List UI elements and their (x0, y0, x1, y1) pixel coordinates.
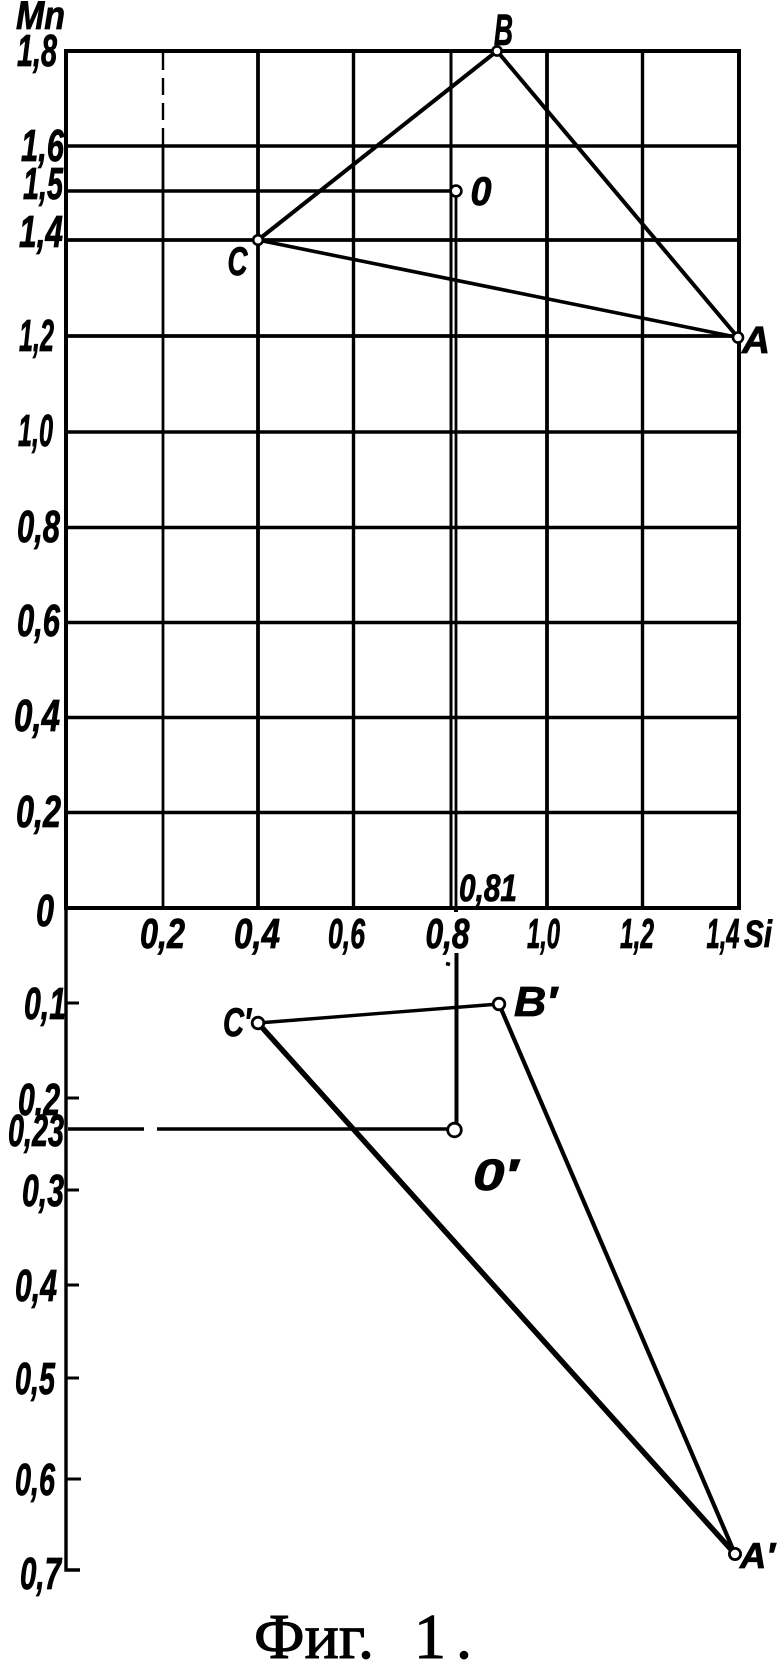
svg-text:C′: C′ (223, 1001, 253, 1045)
svg-text:B′: B′ (514, 978, 559, 1025)
svg-text:1.: 1. (414, 1601, 472, 1662)
svg-text:1,4: 1,4 (19, 206, 63, 257)
svg-text:1,8: 1,8 (17, 25, 57, 76)
svg-text:0,6: 0,6 (328, 910, 365, 957)
svg-text:0,6: 0,6 (15, 1454, 56, 1505)
svg-text:0,1: 0,1 (24, 978, 66, 1029)
svg-text:B: B (494, 6, 513, 55)
svg-text:0,8: 0,8 (17, 501, 60, 552)
svg-text:C: C (228, 240, 249, 284)
svg-text:A′: A′ (739, 1535, 776, 1576)
svg-text:Si: Si (744, 914, 773, 956)
svg-text:A: A (741, 320, 770, 362)
svg-text:0,7: 0,7 (20, 1548, 62, 1599)
svg-text:0,8: 0,8 (426, 910, 470, 957)
svg-text:0,4: 0,4 (15, 1260, 57, 1311)
svg-text:0: 0 (471, 170, 492, 214)
svg-text:0: 0 (36, 885, 54, 936)
svg-text:1,0: 1,0 (527, 910, 560, 957)
svg-text:0,2: 0,2 (16, 786, 61, 837)
svg-text:0,81: 0,81 (459, 868, 517, 910)
svg-text:0,4: 0,4 (234, 910, 280, 957)
svg-text:0,23: 0,23 (8, 1105, 64, 1156)
svg-text:1,2: 1,2 (620, 910, 654, 957)
svg-text:0,2: 0,2 (140, 910, 185, 957)
svg-text:1,2: 1,2 (19, 310, 54, 361)
svg-text:1,0: 1,0 (18, 405, 53, 456)
svg-text:0,4: 0,4 (14, 690, 60, 741)
svg-text:Фиг.: Фиг. (254, 1601, 374, 1662)
svg-text:1,5: 1,5 (23, 158, 64, 209)
svg-text:0,5: 0,5 (15, 1353, 56, 1404)
svg-text:0,6: 0,6 (17, 595, 61, 646)
svg-text:1,4: 1,4 (707, 910, 740, 957)
svg-text:0′: 0′ (473, 1151, 521, 1200)
svg-text:0,3: 0,3 (22, 1165, 64, 1216)
